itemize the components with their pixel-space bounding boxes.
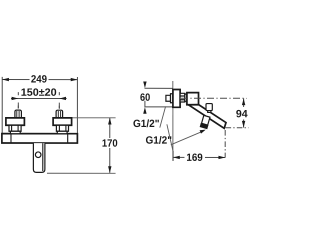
svg-text:60: 60 xyxy=(140,92,150,104)
svg-text:249: 249 xyxy=(31,74,47,86)
svg-text:G1/2": G1/2" xyxy=(133,118,160,130)
svg-text:150±20: 150±20 xyxy=(21,87,57,99)
svg-text:94: 94 xyxy=(236,108,248,120)
svg-text:169: 169 xyxy=(186,152,202,164)
svg-text:170: 170 xyxy=(102,138,118,150)
svg-text:G1/2": G1/2" xyxy=(145,135,172,147)
